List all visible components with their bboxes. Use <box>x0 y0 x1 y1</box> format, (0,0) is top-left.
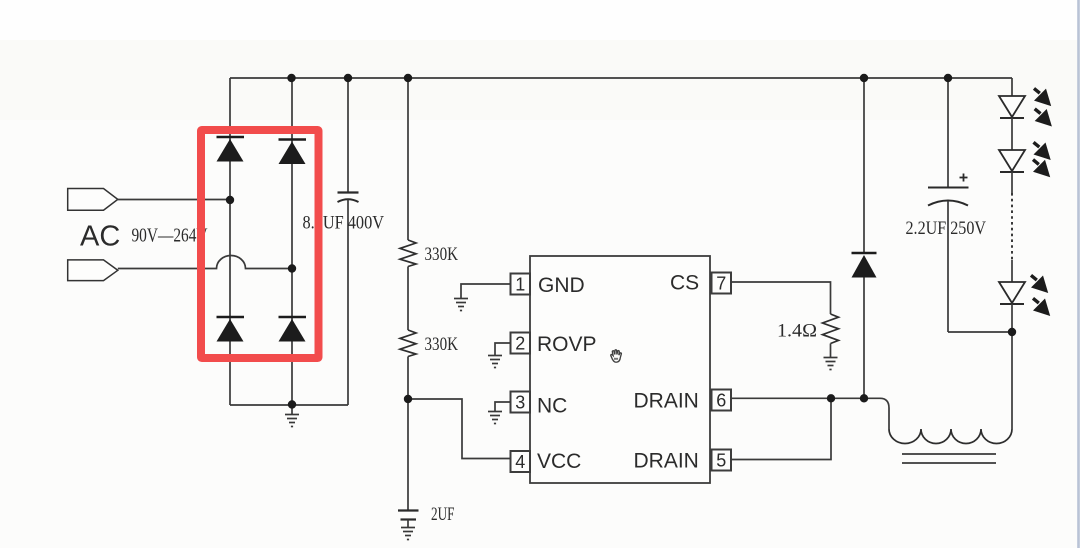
svg-text:NC: NC <box>537 395 567 418</box>
pin 6 box <box>712 390 732 411</box>
resistor R3 1.4 ohm <box>823 314 839 344</box>
node dot VCC tap <box>404 395 412 403</box>
svg-text:DRAIN: DRAIN <box>634 450 699 473</box>
wire bridge left leg <box>229 78 231 405</box>
wire dashed to LED3 <box>1011 260 1013 282</box>
diode D4 bridge bottom-right <box>279 317 307 342</box>
node dot AC upper <box>226 196 234 204</box>
wire C3 bottom to LED net <box>948 331 1012 333</box>
wire LED3 to junction <box>1011 304 1013 429</box>
wire AC upper to bridge <box>118 199 230 201</box>
node dot rail-C3 <box>944 74 952 82</box>
pin 4 box <box>511 451 531 472</box>
LED D7 <box>999 150 1025 172</box>
ground pin3 <box>488 412 502 424</box>
svg-text:5: 5 <box>716 451 726 471</box>
svg-text:3: 3 <box>515 393 525 413</box>
svg-text:4: 4 <box>515 452 525 472</box>
node dot LED-C3 <box>1008 328 1016 336</box>
AC terminal upper <box>68 189 118 211</box>
svg-text:GND: GND <box>538 274 585 297</box>
svg-text:2: 2 <box>515 334 525 354</box>
node dot rail-bridge <box>287 74 295 82</box>
wire pin3 to ground <box>495 402 511 412</box>
diode D5 <box>852 78 877 398</box>
node dot AC lower <box>288 264 296 272</box>
wire VCC tap <box>408 399 511 459</box>
wire pin1 to ground <box>461 284 511 299</box>
node dot pin6-pin5 <box>827 394 835 402</box>
pin 5 box <box>712 450 732 471</box>
capacitor C1 8.2UF 400V <box>338 78 359 405</box>
inductor L1 <box>889 429 1012 444</box>
wire top rail <box>230 77 1012 79</box>
node dot rail-330K <box>404 74 412 82</box>
wire 330K column <box>407 78 409 240</box>
svg-text:1: 1 <box>515 275 525 295</box>
svg-text:1.4Ω: 1.4Ω <box>777 321 817 342</box>
wire LED1-LED2 <box>1011 118 1013 150</box>
node dot rail-D5 <box>860 74 868 82</box>
browser edge line <box>1077 0 1080 548</box>
ground below C2 <box>401 528 415 540</box>
svg-text:VCC: VCC <box>537 450 581 473</box>
LED D8 <box>999 282 1025 304</box>
svg-text:7: 7 <box>716 274 726 294</box>
wire R2 to C2 <box>407 357 409 511</box>
node dot bridge bottom <box>288 400 296 408</box>
wire pin7 to R3 <box>731 282 831 314</box>
svg-text:DRAIN: DRAIN <box>634 390 699 413</box>
wire R3 to ground <box>830 344 832 358</box>
LED D6 <box>999 96 1025 118</box>
ground pin2 <box>488 356 502 368</box>
annotation red box around bridge <box>201 130 319 358</box>
svg-text:AC: AC <box>80 221 120 253</box>
capacitor C2 2UF <box>398 511 419 528</box>
svg-text:2UF: 2UF <box>431 504 455 525</box>
wire dashed continuation <box>1011 193 1013 260</box>
inductor core line 1 <box>902 453 996 455</box>
LED D6 arrows <box>1034 88 1051 106</box>
svg-text:90V—264V: 90V—264V <box>132 225 208 247</box>
wire pin6 to inductor <box>731 398 889 429</box>
wire pin5 up to pin6 net <box>731 398 831 459</box>
resistor R1 330K <box>400 240 416 267</box>
capacitor C3 2.2UF 250V <box>928 78 969 332</box>
svg-text:2.2UF 250V: 2.2UF 250V <box>906 218 987 239</box>
svg-text:330K: 330K <box>425 334 459 355</box>
inductor core line 2 <box>902 462 996 464</box>
LED D7 arrows <box>1034 142 1051 160</box>
LED D8 arrows <box>1031 275 1048 293</box>
pin 1 box <box>511 274 531 295</box>
wire bridge bottom bus <box>230 404 348 406</box>
svg-text:6: 6 <box>716 391 726 411</box>
node dot rail-C1 <box>344 74 352 82</box>
node dot D5 bottom <box>860 394 868 402</box>
ground bridge <box>291 405 293 415</box>
hand cursor <box>611 350 622 362</box>
svg-text:ROVP: ROVP <box>537 333 597 356</box>
diode D2 bridge top-right <box>279 140 307 165</box>
ground R3 <box>824 358 838 370</box>
wire LED2 to dashed <box>1011 172 1013 193</box>
AC terminal lower <box>68 260 118 281</box>
diode D3 bridge bottom-left <box>217 317 245 342</box>
wire between resistors <box>407 267 409 331</box>
svg-text:330K: 330K <box>425 244 459 265</box>
resistor R2 330K <box>400 330 416 357</box>
wire LED chain top <box>1011 78 1013 96</box>
wire bridge right leg <box>291 78 293 405</box>
pin 7 box <box>712 273 732 294</box>
wire AC lower to bridge with hop over left leg <box>118 256 292 269</box>
ground pin1 <box>454 299 468 311</box>
pin 2 box <box>511 333 531 354</box>
diode D1 bridge top-left <box>217 137 245 162</box>
pin 3 box <box>511 392 531 413</box>
svg-text:CS: CS <box>670 272 699 295</box>
op-amp U1 IC body <box>530 256 710 483</box>
wire pin2 to ground <box>495 343 511 356</box>
